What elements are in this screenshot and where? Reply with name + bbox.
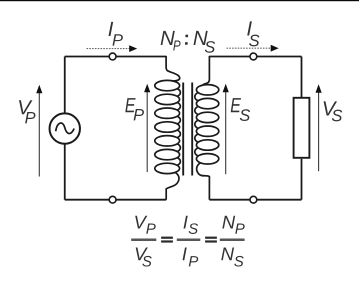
wire: secondary bottom horizontal: [209, 199, 301, 201]
wire: secondary top horizontal: [209, 56, 301, 58]
top border frame line: [0, 0, 359, 1]
label IS: [247, 21, 259, 46]
primary winding L1 exit wire: [166, 172, 179, 199]
label EP: [125, 98, 144, 120]
secondary winding L2 exit wire: [197, 163, 210, 200]
voltage arrow VS: [316, 84, 322, 171]
wire: primary left vertical (source bottom): [64, 144, 66, 200]
transformer core line left: [182, 83, 184, 176]
eq equals sign 1: [161, 237, 173, 243]
current arrow IP: [87, 45, 138, 52]
primary winding L1 turn links: [177, 89, 180, 166]
ac source V1 circle: [50, 113, 80, 143]
transformer core line right: [191, 83, 193, 176]
secondary winding L2 entry wire: [203, 56, 210, 85]
wire: secondary right vertical (load bottom): [301, 159, 303, 200]
label NP:NS turns ratio: [161, 31, 215, 53]
primary winding L1 turns (7 loops): [155, 80, 180, 173]
label ES: [231, 98, 250, 121]
label VP: [19, 100, 36, 123]
emf arrow EP: [144, 84, 150, 172]
wire: secondary right vertical (load top): [301, 57, 303, 98]
emf arrow ES: [223, 84, 229, 174]
terminal node secondary bottom: [250, 196, 257, 203]
voltage arrow VP: [36, 85, 42, 177]
ac source V1 sine wave: [56, 123, 74, 134]
load resistor R1: [294, 98, 310, 158]
label IP: [109, 22, 123, 46]
primary winding L1 entry wire: [166, 56, 180, 81]
wire: primary top horizontal: [65, 56, 166, 58]
secondary winding L2 turns (6 loops): [196, 85, 218, 164]
wire: primary bottom horizontal: [65, 199, 166, 201]
terminal node secondary top: [250, 53, 257, 60]
wire: primary left vertical (source top): [64, 57, 66, 114]
current arrow IS: [227, 45, 279, 52]
secondary winding L2 turn links: [195, 93, 198, 156]
eq fraction VP over VS: [131, 216, 156, 267]
equation VP/VS = IS/IP = NP/NS: [131, 216, 245, 267]
eq fraction NP over NS: [220, 216, 245, 267]
label VS: [324, 101, 343, 121]
eq equals sign 2: [205, 237, 217, 243]
eq fraction IS over IP: [177, 216, 201, 267]
terminal node primary bottom: [109, 196, 116, 203]
terminal node primary top: [109, 53, 116, 60]
